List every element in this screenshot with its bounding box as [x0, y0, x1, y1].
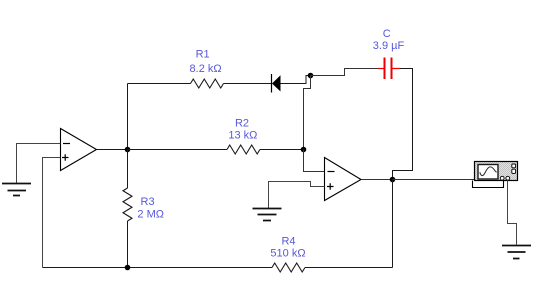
oscilloscope XSC1 body	[475, 162, 518, 181]
wire U2 non-inverting input to ground	[269, 182, 325, 209]
wire R2 to node B	[260, 149, 304, 151]
capacitor C left lead (red)	[378, 68, 384, 70]
wire top rail left segment	[128, 83, 191, 85]
svg-text:R1: R1	[196, 49, 210, 61]
node B junction dot	[301, 147, 307, 153]
wire U2 output to node C	[361, 179, 393, 181]
oscilloscope terminals bottom	[500, 176, 504, 180]
oscilloscope base bracket	[473, 181, 504, 188]
svg-text:13 kΩ: 13 kΩ	[228, 130, 257, 142]
resistor R2	[227, 145, 260, 154]
wire R3 to bottom rail	[127, 221, 129, 268]
wire U1 output to node A	[97, 149, 128, 151]
op-amp U2 plus symbol	[327, 183, 334, 190]
node junction dot bottom (R3/bottom rail)	[125, 265, 131, 271]
node junction dot top (diode/capacitor/inverting net)	[308, 73, 314, 79]
svg-text:2 MΩ: 2 MΩ	[137, 209, 164, 221]
wire diode to jog	[281, 76, 311, 84]
oscilloscope buttons top-right	[512, 164, 516, 168]
wire U1 inverting input to ground	[17, 144, 61, 184]
oscilloscope screen	[478, 165, 498, 180]
wire node A to R2	[128, 149, 228, 151]
op-amp U1 triangle	[61, 129, 97, 171]
oscilloscope sine trace	[480, 167, 497, 176]
wire node B down to U2 inverting input	[304, 150, 325, 172]
wire node A down to R3	[127, 150, 129, 189]
node C junction dot (U2 output)	[390, 177, 396, 183]
diode D1 cathode bar	[271, 74, 273, 93]
wire top-left vertical from top rail down to node A	[127, 84, 129, 148]
resistor R1	[191, 79, 224, 88]
wire node top down to R2 node	[304, 76, 311, 148]
wire U1 non-inverting input to feedback	[43, 158, 61, 268]
svg-text:8.2 kΩ: 8.2 kΩ	[190, 63, 222, 75]
svg-text:R3: R3	[141, 196, 155, 208]
bottom rail wire right	[305, 267, 393, 269]
ground middle	[253, 209, 282, 221]
svg-text:R2: R2	[235, 117, 249, 129]
ground right	[502, 246, 531, 259]
wire node to capacitor left	[311, 69, 379, 76]
diode D1 triangle	[272, 75, 281, 91]
wire node C down to bottom rail	[392, 180, 394, 268]
wire node C to oscilloscope	[393, 179, 475, 181]
capacitor C right lead (red)	[392, 68, 400, 70]
ground left	[2, 184, 31, 196]
capacitor C plates	[385, 58, 392, 80]
resistor R4	[272, 263, 305, 272]
svg-text:510 kΩ: 510 kΩ	[270, 248, 305, 260]
node A junction dot (U1 output)	[125, 147, 131, 153]
svg-text:3.9 µF: 3.9 µF	[373, 40, 405, 52]
op-amp U2 triangle	[325, 158, 362, 201]
wire R1 to diode	[224, 83, 272, 85]
op-amp U1 minus symbol	[63, 143, 70, 145]
svg-text:C: C	[383, 28, 391, 40]
op-amp U1 plus symbol	[62, 154, 69, 161]
wire oscilloscope to ground right	[508, 181, 517, 245]
resistor R3 (vertical)	[123, 188, 132, 221]
wire capacitor right to down	[393, 69, 413, 180]
op-amp U2 minus symbol	[328, 171, 335, 173]
bottom rail wire left	[43, 267, 273, 269]
svg-text:R4: R4	[281, 236, 295, 248]
